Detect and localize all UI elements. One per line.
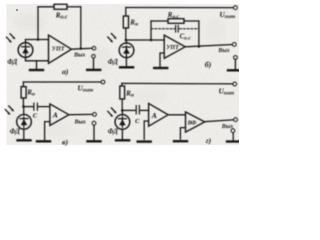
svg-text:Вых: Вых <box>217 48 229 54</box>
svg-text:Вых: Вых <box>73 52 85 58</box>
svg-text:УПТ: УПТ <box>52 47 65 53</box>
svg-text:г): г) <box>206 136 212 145</box>
svg-text:УПТ: УПТ <box>166 45 179 51</box>
svg-text:ВФ: ВФ <box>187 121 197 127</box>
svg-text:А: А <box>52 110 58 119</box>
svg-text:Вых: Вых <box>221 124 233 130</box>
svg-text:Cо.с: Cо.с <box>180 34 192 42</box>
svg-text:А: А <box>151 111 157 120</box>
svg-text:ФД: ФД <box>108 59 118 66</box>
svg-text:в): в) <box>62 137 68 146</box>
svg-text:ФД: ФД <box>7 59 17 66</box>
svg-text:Rо.с: Rо.с <box>167 12 180 20</box>
svg-text:C: C <box>33 113 38 120</box>
svg-text:б): б) <box>205 60 212 69</box>
svg-text:ФД: ФД <box>108 129 118 136</box>
svg-text:ФД: ФД <box>10 129 20 136</box>
svg-text:а): а) <box>62 67 69 76</box>
svg-text:Вых: Вых <box>74 119 86 125</box>
svg-text:C: C <box>135 118 140 125</box>
